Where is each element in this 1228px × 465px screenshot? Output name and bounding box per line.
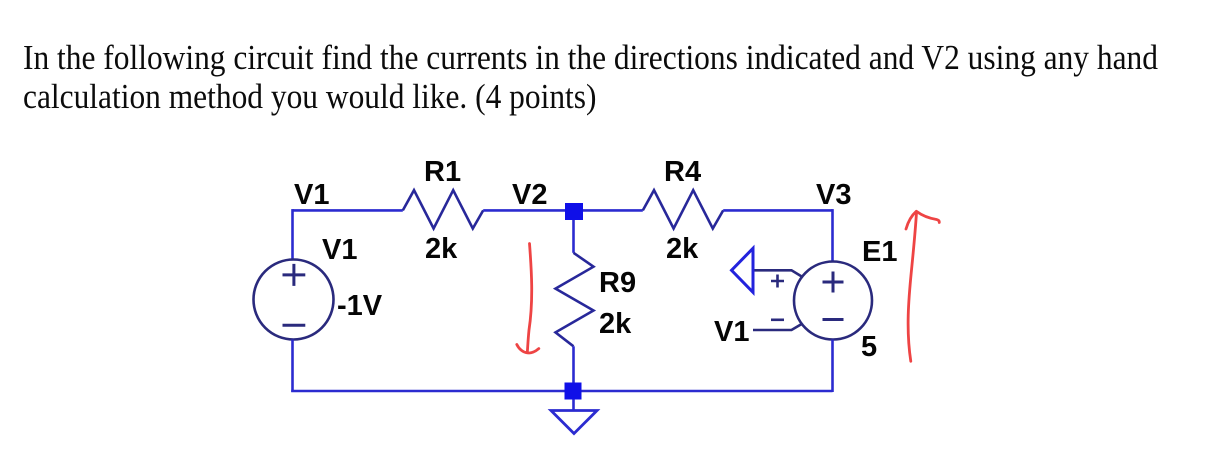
E1 control plus sign (771, 275, 784, 288)
wire node V2 to R4 (583, 209, 643, 212)
red current arrow right (908, 213, 916, 362)
voltage source V1 circle (254, 260, 334, 340)
V1 plus sign (283, 264, 306, 286)
svg-text:R4: R4 (664, 156, 701, 188)
svg-text:V1: V1 (714, 316, 749, 348)
wire top-left horizontal (293, 209, 403, 212)
question text (23, 38, 1181, 116)
node ground junction square (565, 383, 582, 400)
wire bottom rail (291, 390, 832, 393)
svg-text:R1: R1 (424, 156, 461, 188)
dependent source E1 circle (794, 262, 872, 340)
wire left vertical V1 top lead (291, 209, 294, 260)
svg-text:E1: E1 (862, 236, 897, 268)
svg-text:2k: 2k (425, 233, 458, 265)
wire R9 top lead (572, 220, 575, 253)
svg-text:2k: 2k (599, 308, 632, 340)
E1 plus sign (823, 272, 844, 293)
resistor R1 (403, 190, 483, 228)
wire E1 control minus stub (753, 324, 802, 330)
E1 minus sign (823, 318, 844, 321)
wire R4 to top-right corner (723, 209, 832, 212)
resistor R4 (643, 190, 723, 228)
svg-text:5: 5 (861, 331, 877, 363)
node V2 junction square (565, 203, 583, 220)
wire E1 control plus stub (753, 270, 802, 277)
red current arrow middle (527, 244, 531, 353)
wire R1 to node V2 (483, 209, 566, 212)
wire E1 bottom lead (831, 340, 834, 393)
wire V1 bottom lead (291, 340, 294, 393)
ground symbol (551, 411, 597, 434)
red arrowhead middle (517, 345, 539, 353)
svg-text:R9: R9 (599, 267, 636, 299)
V1 minus sign (283, 324, 306, 327)
wire R9 bottom lead (572, 346, 575, 383)
control arrow triangle (732, 248, 754, 292)
wire right vertical to E1 (831, 209, 834, 261)
svg-text:V1: V1 (322, 234, 357, 266)
resistor R9 (556, 253, 594, 346)
wire ground stub (572, 400, 575, 411)
svg-text:V2: V2 (512, 179, 547, 211)
E1 control minus sign (771, 318, 784, 321)
svg-text:2k: 2k (666, 233, 699, 265)
svg-text:V3: V3 (816, 179, 851, 211)
red arrowhead right (906, 211, 939, 229)
svg-text:V1: V1 (294, 179, 329, 211)
svg-text:-1V: -1V (337, 290, 383, 322)
